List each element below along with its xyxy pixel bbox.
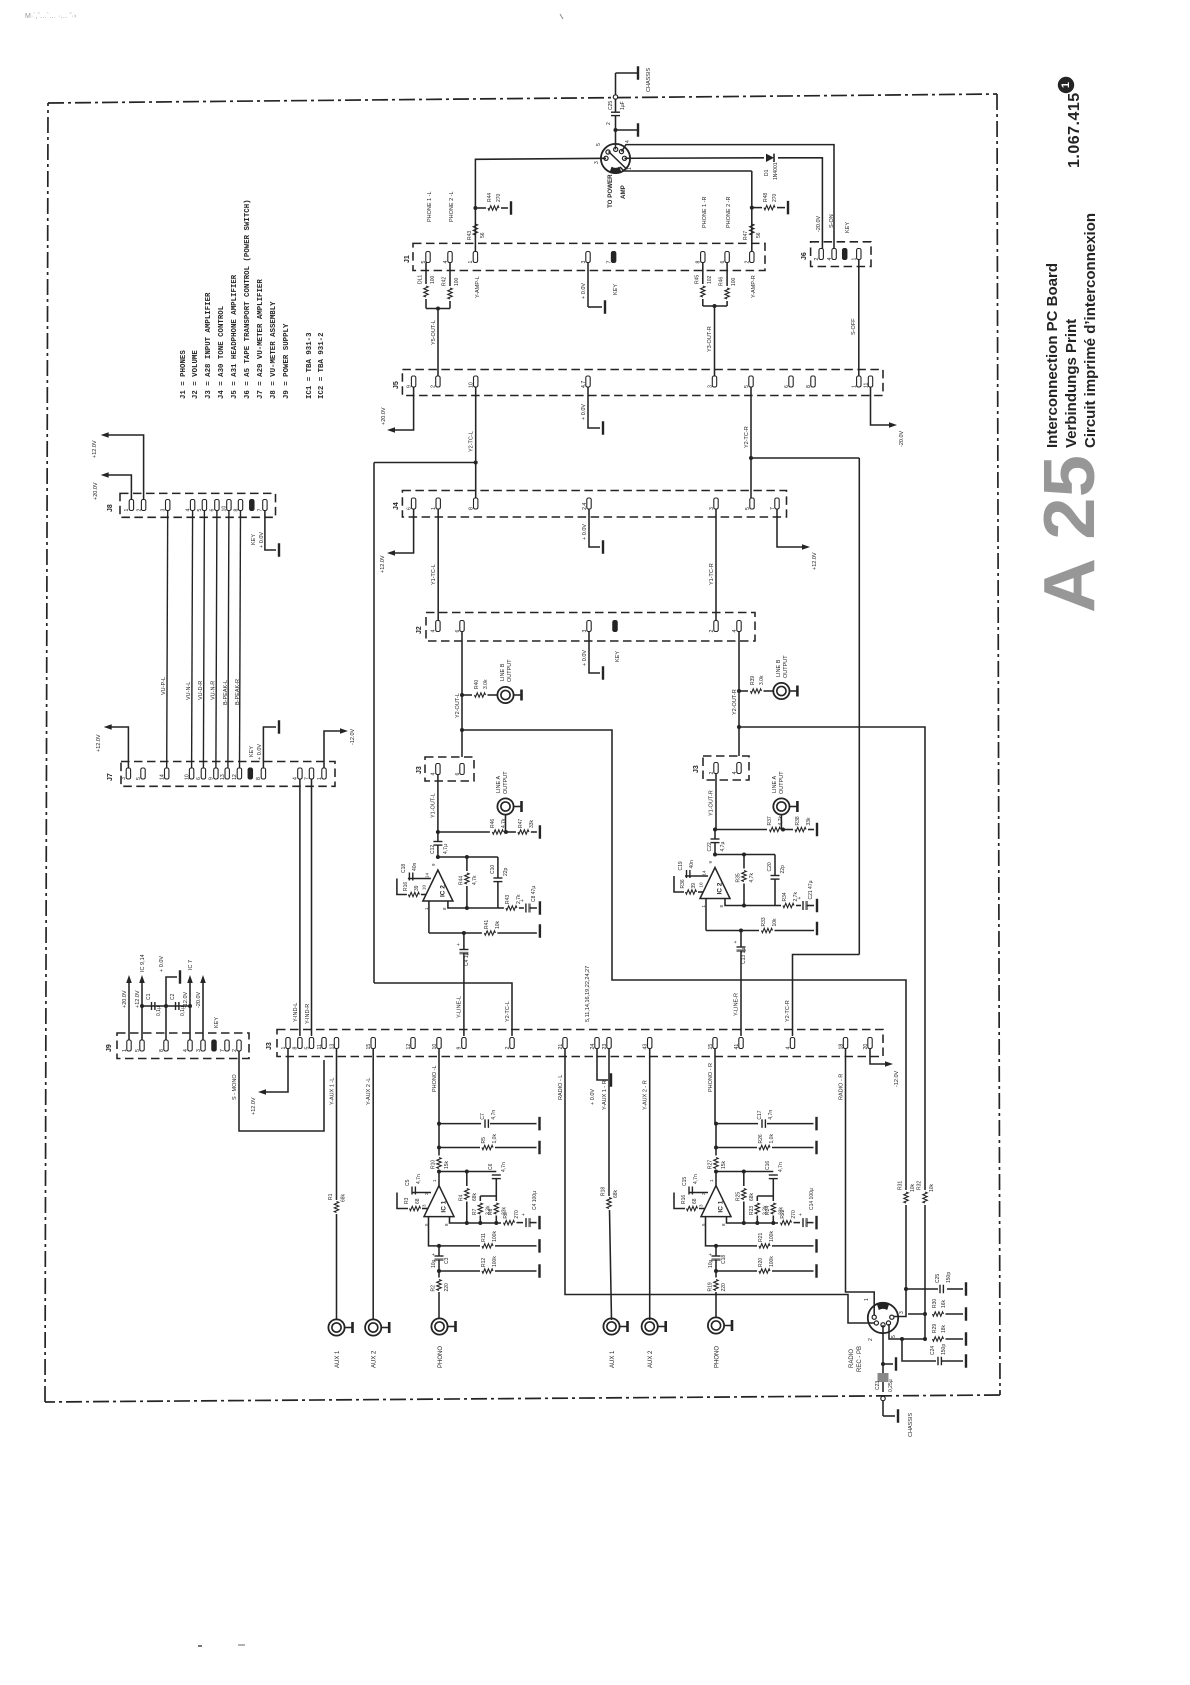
svg-text:1: 1 <box>864 1298 870 1301</box>
wire RADIO-L J3 to DIN <box>558 1049 874 1323</box>
key label J1 <box>613 284 619 295</box>
svg-text:100: 100 <box>454 277 460 286</box>
resistor R11 100k <box>481 1231 498 1249</box>
resistor R22 270 <box>780 1209 800 1225</box>
capacitor C25 1uF <box>608 97 626 149</box>
svg-text:+12.0V: +12.0V <box>92 440 98 458</box>
jack PHONO <box>431 1318 455 1368</box>
ground at J7 KEY pin <box>249 720 279 768</box>
net label PHONE 2-R <box>726 196 732 228</box>
svg-text:20: 20 <box>863 1044 869 1050</box>
ground pins label J3 <box>585 966 591 1022</box>
wire DIN pin3 to J1 pin2 <box>620 167 754 252</box>
ground at C25 node <box>616 123 639 137</box>
bias divider node of IC 1 <box>706 1217 817 1253</box>
connector J3 main row <box>266 1030 883 1057</box>
svg-text:IC 2: IC 2 <box>717 882 724 894</box>
svg-text:KEY: KEY <box>845 222 851 233</box>
svg-text:12: 12 <box>232 774 238 780</box>
op-amp IC 2 lower rail <box>725 899 775 908</box>
svg-text:-20.0V: -20.0V <box>196 991 202 1008</box>
wire J3 pin1 to +12.0V arrow <box>251 1049 288 1115</box>
svg-text:Circuit imprimé d’interconne: Circuit imprimé d’interconnexion <box>1082 213 1099 448</box>
svg-text:C5: C5 <box>405 1179 411 1186</box>
svg-text:4,7n: 4,7n <box>768 1110 774 1120</box>
svg-text:2: 2 <box>505 1047 511 1050</box>
op-amp IC 2 input node <box>436 830 508 834</box>
svg-text:C8 47µ: C8 47µ <box>531 886 537 902</box>
svg-text:RADIO - R: RADIO - R <box>839 1074 845 1100</box>
capacitor C6 4,7n <box>480 1162 507 1196</box>
svg-text:C13 1µ: C13 1µ <box>741 948 747 964</box>
resistor R41 10k <box>464 920 540 938</box>
svg-text:1: 1 <box>1060 82 1072 88</box>
svg-text:AMP: AMP <box>620 185 627 199</box>
legend connector list <box>180 199 326 399</box>
svg-text:R43: R43 <box>505 895 511 904</box>
svg-text:4: 4 <box>732 772 738 775</box>
connector J5 <box>393 370 883 396</box>
svg-text:Y-IND-R: Y-IND-R <box>305 1004 311 1024</box>
svg-text:4,7n: 4,7n <box>491 1110 497 1120</box>
svg-text:R46: R46 <box>490 819 496 828</box>
svg-text:10: 10 <box>469 382 475 388</box>
svg-text:+ 0.0V: + 0.0V <box>257 744 263 760</box>
svg-text:-20.0V: -20.0V <box>816 215 822 232</box>
capacitor C4 100u <box>521 1191 540 1229</box>
net label PHONE 1-R <box>702 196 708 228</box>
jack AUX 2 <box>365 1319 389 1368</box>
svg-text:J3: J3 <box>266 1042 273 1050</box>
wire PHONO-L J3 to input stage <box>432 1049 439 1126</box>
jack AUX 2 <box>642 1318 666 1368</box>
svg-text:+20.0V: +20.0V <box>122 990 128 1008</box>
resistor R46 100 <box>719 263 738 307</box>
output cap of IC 2 <box>733 931 746 970</box>
svg-text:A 25: A 25 <box>1030 455 1110 613</box>
svg-text:C15: C15 <box>682 1177 688 1186</box>
svg-text:+12.0V: +12.0V <box>380 555 386 573</box>
wire PHONO-R J3 to input stage <box>708 1049 715 1123</box>
svg-text:1: 1 <box>122 1049 128 1052</box>
svg-text:R36: R36 <box>680 879 686 888</box>
svg-text:100k: 100k <box>492 1256 498 1267</box>
svg-text:OUTPUT: OUTPUT <box>783 655 789 678</box>
svg-text:KEY: KEY <box>251 534 257 545</box>
resistor R12 100k <box>481 1256 498 1274</box>
svg-text:2,4: 2,4 <box>582 503 588 510</box>
svg-text:+12.0V: +12.0V <box>135 990 141 1008</box>
jack LINE A OUTPUT left <box>496 771 522 832</box>
svg-text:C18: C18 <box>721 1255 727 1264</box>
svg-text:J7 = A29 VU-METER AMPLIFIER: J7 = A29 VU-METER AMPLIFIER <box>257 279 265 399</box>
svg-text:IC 2: IC 2 <box>439 885 446 897</box>
svg-text:5: 5 <box>197 509 203 512</box>
svg-text:56: 56 <box>480 232 486 238</box>
resistor R35 4,7k <box>736 855 756 906</box>
resistor R25 68k <box>735 1172 755 1224</box>
svg-text:7: 7 <box>770 507 776 510</box>
svg-text:R16: R16 <box>681 1195 687 1204</box>
svg-text:C22: C22 <box>707 842 713 851</box>
op-amp IC 2 output to feedback rail <box>429 901 466 935</box>
svg-text:R3: R3 <box>404 1197 410 1204</box>
svg-text:1.067.415: 1.067.415 <box>1066 92 1083 168</box>
svg-text:KEY: KEY <box>214 1017 220 1028</box>
svg-text:5: 5 <box>304 1047 310 1050</box>
op-amp IC 2 <box>421 863 453 910</box>
svg-text:AUX 1: AUX 1 <box>335 1350 341 1368</box>
svg-text:R34: R34 <box>782 892 788 901</box>
svg-text:Y2-TC-L: Y2-TC-L <box>469 431 475 452</box>
svg-text:3: 3 <box>899 1311 905 1314</box>
svg-text:VU-P-L: VU-P-L <box>161 677 167 695</box>
ground at J4 pins 2,4 <box>582 509 603 554</box>
svg-text:R43: R43 <box>467 231 473 240</box>
svg-text:C2: C2 <box>170 993 176 1000</box>
svg-text:15: 15 <box>708 1044 714 1050</box>
svg-text:R45: R45 <box>695 275 701 284</box>
svg-text:J1 = PHONES: J1 = PHONES <box>180 350 188 399</box>
jack PHONO <box>708 1317 732 1368</box>
svg-text:R29: R29 <box>932 1324 938 1333</box>
svg-text:220: 220 <box>444 1283 450 1292</box>
wire Y-IND-R J7 pin7 to J3 <box>305 779 312 1036</box>
svg-text:5,11,14,16,19,22,24,27: 5,11,14,16,19,22,24,27 <box>585 966 591 1022</box>
net label Y-AMP-R <box>751 275 757 298</box>
svg-text:+: + <box>456 943 462 946</box>
svg-text:AUX 1: AUX 1 <box>610 1350 616 1368</box>
svg-text:KEY: KEY <box>249 746 255 757</box>
svg-text:3: 3 <box>196 1049 202 1052</box>
svg-text:3: 3 <box>709 507 715 510</box>
svg-text:23: 23 <box>602 1044 608 1050</box>
record left feed node <box>894 1282 966 1316</box>
resistor R36 39 <box>680 879 704 894</box>
svg-text:C20: C20 <box>767 862 773 871</box>
svg-text:PHONE 1 -L: PHONE 1 -L <box>427 191 433 222</box>
svg-text:B-PEAK-L: B-PEAK-L <box>223 680 229 705</box>
svg-text:4,7k: 4,7k <box>778 816 784 826</box>
svg-text:8: 8 <box>469 507 475 510</box>
svg-text:9: 9 <box>457 1047 463 1050</box>
svg-text:8: 8 <box>293 1047 299 1050</box>
op-amp IC 1 <box>699 1179 732 1226</box>
svg-text:11: 11 <box>317 1044 323 1049</box>
svg-text:Interconnection PC Board: Interconnection PC Board <box>1044 263 1061 448</box>
svg-text:10: 10 <box>222 506 228 512</box>
svg-text:R11: R11 <box>481 1233 487 1242</box>
wire J9 pin1 +20.0V arrow up <box>122 975 132 1040</box>
svg-text:4,7n: 4,7n <box>693 1174 699 1184</box>
svg-text:B-PEAK-R: B-PEAK-R <box>235 679 241 705</box>
ground at J3 pin24 <box>590 1049 611 1105</box>
svg-text:J8: J8 <box>107 504 114 512</box>
feedback top rail of IC 1 <box>437 1170 496 1174</box>
svg-text:R30: R30 <box>932 1299 938 1308</box>
svg-text:S-ON: S-ON <box>829 214 835 228</box>
resistor R43 56 <box>467 224 486 240</box>
svg-text:5: 5 <box>596 143 602 146</box>
wire S-OFF J6 pin1 to J5 pin1 <box>851 260 859 377</box>
resistor R10 15k <box>431 1148 451 1186</box>
svg-text:1,0k: 1,0k <box>769 1134 775 1144</box>
svg-text:1: 1 <box>627 167 633 170</box>
svg-text:10: 10 <box>432 1044 438 1050</box>
svg-text:Y1-OUT-R: Y1-OUT-R <box>709 790 715 816</box>
wire DIN pin1 to J6 pin2 with diode <box>625 158 823 252</box>
wire Y1-OUT-L from J3 pin4 <box>431 775 438 833</box>
wire Y2-OUT-R from J2 pin4b <box>732 632 741 757</box>
svg-text:3: 3 <box>707 385 713 388</box>
svg-text:14: 14 <box>424 872 429 878</box>
svg-text:J1: J1 <box>404 255 411 263</box>
resistor R16 39 <box>403 882 427 897</box>
svg-text:C24: C24 <box>930 1346 936 1355</box>
svg-text:1µF: 1µF <box>620 101 626 110</box>
svg-text:1: 1 <box>124 509 130 512</box>
title part number 1.067.415 <box>1066 92 1083 168</box>
resistor R30 16k <box>908 1299 966 1321</box>
svg-text:150p: 150p <box>946 1272 952 1283</box>
resistor R1 68k <box>328 1193 347 1212</box>
svg-text:R19: R19 <box>708 1282 714 1291</box>
svg-text:C23: C23 <box>875 1381 881 1390</box>
net label PHONE 2-L <box>449 191 455 222</box>
svg-text:4,7k: 4,7k <box>472 875 478 885</box>
svg-text:6: 6 <box>210 509 216 512</box>
svg-text:10µ: 10µ <box>708 1259 714 1268</box>
svg-text:+20.0V: +20.0V <box>381 407 387 425</box>
svg-text:2: 2 <box>709 630 715 633</box>
svg-text:J6 = A5 TAPE TRANSPORT CONTROL: J6 = A5 TAPE TRANSPORT CONTROL (POWER SW… <box>244 199 252 399</box>
net label VU-D-R <box>198 681 204 700</box>
op-amp IC 2 feed node <box>436 855 498 878</box>
svg-text:R33: R33 <box>761 917 767 926</box>
svg-text:39: 39 <box>691 883 697 889</box>
wire Y-LINE-R to J3 <box>734 948 748 1036</box>
capacitor C22 4,7u <box>707 830 726 855</box>
svg-text:R26: R26 <box>758 1134 764 1143</box>
svg-text:4,7n: 4,7n <box>416 1174 422 1184</box>
svg-text:RADIO - L: RADIO - L <box>558 1075 564 1100</box>
capacitor C10 22p <box>490 865 509 908</box>
svg-text:R47: R47 <box>743 231 749 240</box>
net label B-PEAK-L <box>223 680 229 705</box>
svg-text:1: 1 <box>468 261 474 264</box>
svg-text:0,1µ: 0,1µ <box>156 1006 162 1016</box>
svg-text:4: 4 <box>625 140 631 143</box>
svg-text:2: 2 <box>606 122 612 125</box>
output rail of IC 1 <box>727 1217 779 1225</box>
svg-text:5: 5 <box>135 1049 141 1052</box>
chassis ground bottom <box>881 1396 914 1437</box>
board designation A 25 <box>1030 455 1110 613</box>
svg-text:4: 4 <box>431 630 437 633</box>
resistor R16 68 <box>681 1195 705 1211</box>
resistor R19 220 <box>708 1271 728 1318</box>
load node of IC 1 <box>714 1124 817 1155</box>
capacitor C24 150p <box>902 1339 966 1368</box>
svg-text:4,7k: 4,7k <box>749 873 755 883</box>
svg-text:J3: J3 <box>416 766 423 774</box>
svg-text:+ 0.0V: + 0.0V <box>590 1089 596 1105</box>
svg-text:0,25µ: 0,25µ <box>888 1379 894 1392</box>
capacitor C5 4,7n <box>397 1174 431 1208</box>
capacitor C18 40n <box>397 862 431 894</box>
svg-text:68: 68 <box>415 1198 421 1204</box>
wire Y-AUX2-L J3 to AUX2 jack <box>366 1049 373 1320</box>
svg-text:5: 5 <box>745 507 751 510</box>
svg-text:PHONE 2 -L: PHONE 2 -L <box>449 191 455 222</box>
svg-text:Y5-OUT-L: Y5-OUT-L <box>431 320 437 345</box>
svg-text:39: 39 <box>414 885 420 891</box>
key label J2 <box>615 651 621 662</box>
svg-text:2: 2 <box>814 258 820 261</box>
resistor R48 270 <box>752 193 788 215</box>
output rail of IC 1 <box>450 1217 502 1225</box>
svg-text:J3 = A28 INPUT AMPLIFIER: J3 = A28 INPUT AMPLIFIER <box>205 292 213 399</box>
svg-text:J8 = VU-METER ASSEMBLY: J8 = VU-METER ASSEMBLY <box>270 301 278 399</box>
capacitor C19 40n <box>674 860 708 892</box>
wire Y-AUX2-R J3 to AUX2 right jack <box>643 1049 650 1320</box>
svg-text:100k: 100k <box>492 1231 498 1242</box>
resistor R45 102 <box>695 263 714 307</box>
svg-text:J2: J2 <box>416 626 423 634</box>
svg-text:VU-N-L: VU-N-L <box>186 682 192 700</box>
svg-text:Y1-OUT-L: Y1-OUT-L <box>431 793 437 818</box>
wire Y2-TC-L branch to long rail <box>374 463 512 1037</box>
wire Y2-TC-R J5 pin5 to J4 pin5 <box>744 387 753 498</box>
wire Y2-TC-L J5 pin10 to J4 pin8 <box>469 387 478 498</box>
svg-text:C1: C1 <box>146 993 152 1000</box>
svg-text:1: 1 <box>431 507 437 510</box>
svg-text:6: 6 <box>196 777 202 780</box>
svg-text:AUX 2: AUX 2 <box>372 1350 378 1368</box>
capacitor C15 4,7n <box>674 1174 708 1208</box>
svg-text:C6: C6 <box>488 1163 494 1170</box>
svg-text:2: 2 <box>709 772 715 775</box>
svg-text:0,1µ: 0,1µ <box>180 1006 186 1016</box>
op-amp IC 1 <box>422 1179 455 1226</box>
wire DIN pin4 to J6 pin4 <box>622 145 835 252</box>
svg-text:S-OFF: S-OFF <box>851 318 857 335</box>
wire Y2-OUT-L from J2 pin6 <box>455 632 464 758</box>
wire J9 pin8 to +0.0V ground <box>159 956 180 1040</box>
svg-text:+ 0.0V: + 0.0V <box>582 524 588 540</box>
resistor R21 100k <box>758 1231 775 1249</box>
svg-text:4: 4 <box>785 1047 791 1050</box>
svg-text:LINE A: LINE A <box>496 776 502 793</box>
svg-text:R47: R47 <box>518 819 524 828</box>
wire J4 pin6 to +12.0V arrow <box>380 509 414 573</box>
svg-text:4: 4 <box>185 509 191 512</box>
svg-text:Y2-OUT-L: Y2-OUT-L <box>455 693 461 718</box>
svg-text:1N4001: 1N4001 <box>773 162 779 180</box>
svg-text:-12.0V: -12.0V <box>350 728 356 745</box>
resistor R26 1,0k <box>758 1134 775 1150</box>
svg-text:+12.0V: +12.0V <box>96 734 102 752</box>
svg-text:3: 3 <box>161 509 167 512</box>
capacitor C25 150p <box>935 1272 952 1294</box>
svg-text:R21: R21 <box>758 1233 764 1242</box>
resistor R20 100k <box>758 1256 775 1274</box>
svg-text:C3: C3 <box>444 1257 450 1264</box>
svg-text:+ 0.0V: + 0.0V <box>581 404 587 420</box>
svg-text:Y3-OUT-R: Y3-OUT-R <box>707 326 713 352</box>
svg-text:PHONE 1 -R: PHONE 1 -R <box>702 196 708 228</box>
svg-text:22p: 22p <box>503 867 509 876</box>
svg-text:14: 14 <box>160 774 166 780</box>
svg-text:OUTPUT: OUTPUT <box>507 659 513 682</box>
svg-text:-12.0V: -12.0V <box>894 1070 900 1087</box>
wire Y-AUX1-R J3 to AUX1 right jack <box>602 1049 612 1320</box>
wire Y1-OUT-R from J3 pin2 <box>709 774 717 830</box>
wire Y-LINE-L to J3 <box>457 952 471 1036</box>
svg-text:RADIO: RADIO <box>849 1349 855 1368</box>
capacitor C7 4,7n <box>480 1110 497 1128</box>
svg-text:10: 10 <box>699 882 704 888</box>
svg-text:C21 47µ: C21 47µ <box>808 880 814 899</box>
svg-text:+20.0V: +20.0V <box>93 482 99 500</box>
resistor R3 68 <box>404 1197 428 1210</box>
resistor R40 3.0k to LINE B <box>462 679 498 697</box>
svg-text:LINE A: LINE A <box>772 776 778 793</box>
svg-text:7: 7 <box>606 261 612 264</box>
resistor R44 4,7k <box>458 857 478 908</box>
svg-text:+: + <box>798 1213 804 1216</box>
net label VU-P-L <box>161 677 167 695</box>
svg-text:DL1: DL1 <box>418 275 424 284</box>
connector J6 <box>801 242 871 267</box>
svg-text:3.0k: 3.0k <box>759 675 765 685</box>
svg-text:9: 9 <box>406 385 412 388</box>
svg-text:VU-N-R: VU-N-R <box>211 681 217 700</box>
resistor R27 15k <box>708 1148 728 1186</box>
capacitor C3 10u <box>431 1246 450 1271</box>
svg-text:8: 8 <box>696 261 702 264</box>
jack LINE B OUTPUT right <box>773 655 797 699</box>
svg-text:18: 18 <box>838 1044 844 1050</box>
svg-text:270: 270 <box>791 1210 797 1219</box>
svg-text:C10: C10 <box>490 865 496 874</box>
title Interconnection PC Board <box>1044 213 1099 448</box>
svg-text:R32: R32 <box>917 1181 923 1190</box>
op-amp IC 2 lower rail <box>448 901 498 910</box>
svg-text:24: 24 <box>590 1044 596 1050</box>
resistor R39 3.0k to LINE B right <box>739 675 774 693</box>
svg-text:3.0k: 3.0k <box>483 679 489 689</box>
svg-text:10k: 10k <box>910 1183 916 1192</box>
op-amp IC 2 input node <box>713 828 785 832</box>
svg-text:11: 11 <box>863 383 869 388</box>
svg-text:C18: C18 <box>401 864 407 873</box>
svg-text:VU-D-R: VU-D-R <box>198 681 204 700</box>
svg-text:R23: R23 <box>749 1206 755 1215</box>
svg-text:Y2-TC-L: Y2-TC-L <box>505 1001 511 1022</box>
svg-text:R39: R39 <box>750 676 756 685</box>
wire J5 pin11 to -20.0V arrow <box>871 387 906 447</box>
svg-text:2: 2 <box>431 385 437 388</box>
wire J8 pin2 to +12.0V arrow <box>92 432 144 499</box>
svg-text:OUTPUT: OUTPUT <box>503 771 509 794</box>
svg-text:5: 5 <box>136 777 142 780</box>
svg-text:J5: J5 <box>393 381 400 389</box>
svg-text:33k: 33k <box>529 819 535 828</box>
net label S-ON <box>829 214 835 228</box>
svg-text:100k: 100k <box>769 1231 775 1242</box>
connector DIN TO POWER AMP <box>594 122 633 208</box>
